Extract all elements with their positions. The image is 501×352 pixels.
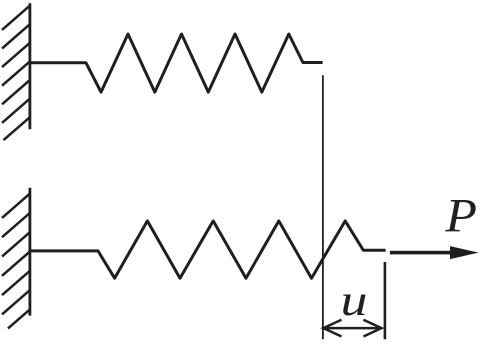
svg-text:u: u bbox=[341, 276, 368, 325]
svg-text:P: P bbox=[444, 190, 477, 243]
